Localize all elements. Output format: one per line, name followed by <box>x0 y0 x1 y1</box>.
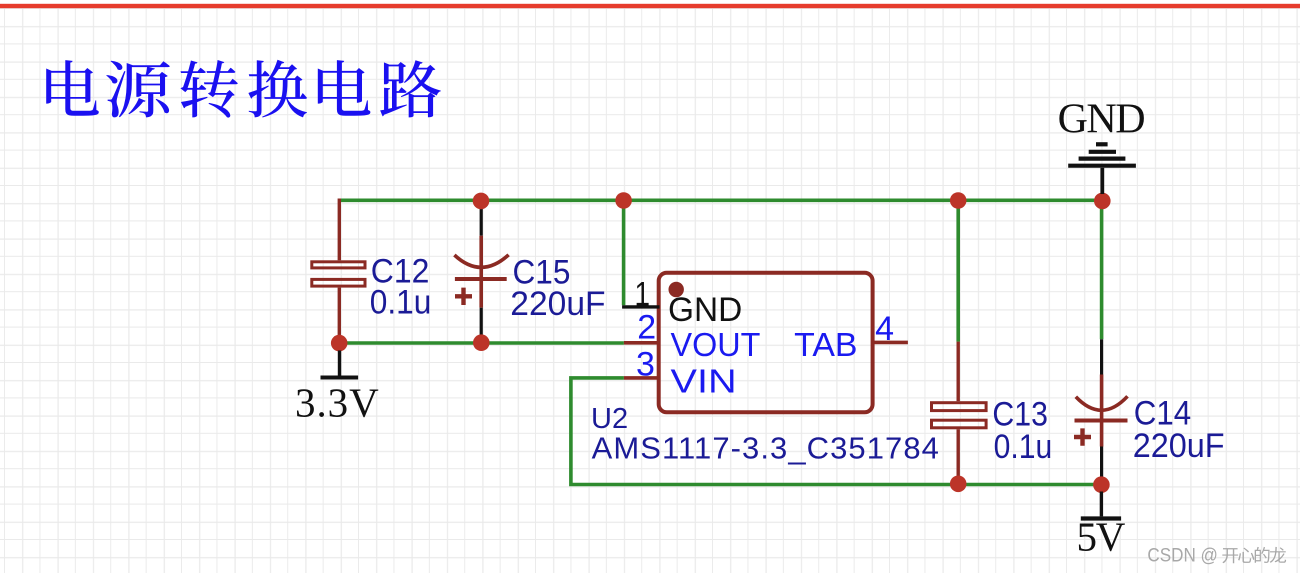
svg-text:5V: 5V <box>1077 513 1126 559</box>
pin 1 <box>622 305 659 308</box>
wire C14 vertical <box>1100 199 1104 340</box>
title 电源转换电路 <box>46 60 441 118</box>
pin 1 indicator dot <box>669 282 684 297</box>
svg-text:CSDN @: CSDN @ <box>1147 546 1218 567</box>
junction top wire / GND <box>1094 193 1111 210</box>
svg-text:GND: GND <box>668 291 742 329</box>
power port 3.3V <box>321 351 359 378</box>
svg-text:2: 2 <box>637 309 656 347</box>
junction top wire / C13 <box>950 192 967 209</box>
capacitor C15 (polarized) <box>454 208 508 336</box>
svg-text:AMS1117-3.3_C351784: AMS1117-3.3_C351784 <box>592 431 939 466</box>
svg-text:3.3V: 3.3V <box>295 379 379 425</box>
pin 4 TAB <box>873 341 908 345</box>
svg-text:VIN: VIN <box>671 363 737 400</box>
wire C13 vertical <box>956 199 960 342</box>
wire pin3 to bottom <box>571 378 1102 485</box>
op-amp U2 regulator body <box>659 273 873 413</box>
junction top wire / C15 <box>473 193 490 210</box>
junction bottom wire / C14 <box>1093 476 1110 493</box>
svg-text:220uF: 220uF <box>510 285 605 323</box>
svg-text:TAB: TAB <box>794 326 857 363</box>
svg-text:0.1u: 0.1u <box>994 428 1053 466</box>
power port 5V <box>1081 492 1121 519</box>
wire pin1 vertical <box>622 199 626 306</box>
junction 3.3V wire / C15 <box>473 334 490 351</box>
wire 3.3V net <box>339 341 624 345</box>
junction bottom wire / C13 <box>950 476 967 493</box>
svg-text:0.1u: 0.1u <box>370 284 432 322</box>
svg-text:220uF: 220uF <box>1133 427 1225 465</box>
capacitor C12 <box>312 199 365 337</box>
svg-text:VOUT: VOUT <box>671 326 761 363</box>
junction 3.3V wire / C12 <box>331 335 348 352</box>
power port GND (earth) <box>1068 144 1136 194</box>
watermark CSDN @开心的龙 <box>1147 546 1286 567</box>
top red bar <box>0 4 1300 8</box>
pin 2 <box>624 341 660 345</box>
wire top net <box>339 199 1102 203</box>
svg-text:GND: GND <box>1058 97 1146 143</box>
svg-text:3: 3 <box>636 345 655 383</box>
capacitor C14 (polarized) <box>1074 339 1128 478</box>
pin 3 <box>624 376 660 380</box>
capacitor C13 <box>932 342 987 478</box>
svg-text:4: 4 <box>875 310 894 348</box>
junction top wire / pin1 <box>615 192 632 209</box>
